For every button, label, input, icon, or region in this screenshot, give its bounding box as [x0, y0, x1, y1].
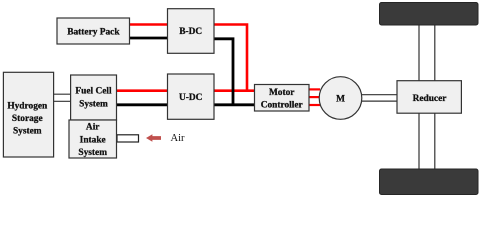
svg-text:Intake: Intake	[80, 135, 106, 145]
box Motor Controller	[255, 85, 310, 112]
svg-text:Reducer: Reducer	[413, 94, 447, 104]
bottom wheel	[380, 169, 479, 195]
svg-text:Motor: Motor	[269, 88, 295, 98]
box Air Intake System	[69, 120, 117, 158]
wire black B-DC output to node at motor controller input	[214, 39, 233, 105]
box Battery Pack	[57, 18, 130, 44]
svg-text:System: System	[78, 148, 107, 158]
box B-DC converter	[168, 9, 215, 54]
box Reducer	[397, 81, 461, 114]
drive shaft (double line) motor M to Reducer	[361, 95, 397, 101]
box Hydrogen Storage System	[3, 72, 53, 157]
wire red three-phase Motor Controller to motor M (phase 2)	[309, 96, 320, 98]
svg-text:Air: Air	[86, 122, 100, 132]
wire black Battery Pack to B-DC	[129, 37, 168, 40]
wire red B-DC output to node at motor controller input	[214, 25, 247, 91]
svg-text:B-DC: B-DC	[179, 27, 202, 37]
wire red U-DC to Motor Controller	[214, 89, 255, 92]
svg-text:System: System	[79, 99, 108, 109]
air intake duct	[117, 135, 139, 142]
wire red three-phase Motor Controller to motor M (phase 1)	[309, 88, 320, 90]
box U-DC converter	[168, 74, 215, 119]
air flow arrow	[146, 134, 161, 141]
svg-text:Storage: Storage	[12, 114, 43, 124]
svg-text:Hydrogen: Hydrogen	[7, 102, 48, 112]
axle (double line) Reducer to bottom wheel	[419, 113, 435, 170]
top wheel	[380, 3, 479, 26]
hydrogen supply pipe (double line) Hydrogen Storage System to Fuel Cell System	[54, 94, 71, 101]
svg-text:System: System	[13, 127, 42, 137]
svg-text:U-DC: U-DC	[179, 93, 203, 103]
wire red Battery Pack to B-DC	[129, 23, 168, 26]
wire red Fuel Cell System to U-DC	[116, 89, 168, 92]
wire black Fuel Cell System to U-DC	[116, 103, 168, 106]
svg-text:M: M	[336, 94, 345, 104]
svg-text:Air: Air	[171, 133, 186, 144]
box Fuel Cell System	[71, 75, 117, 120]
wire black U-DC to Motor Controller	[214, 103, 255, 106]
svg-text:Controller: Controller	[261, 101, 303, 111]
wire red three-phase Motor Controller to motor M (phase 3)	[309, 104, 320, 106]
svg-text:Battery Pack: Battery Pack	[67, 27, 120, 37]
axle (double line) top wheel to Reducer	[419, 24, 435, 81]
svg-text:Fuel Cell: Fuel Cell	[75, 87, 112, 97]
motor M (circle)	[319, 77, 362, 120]
